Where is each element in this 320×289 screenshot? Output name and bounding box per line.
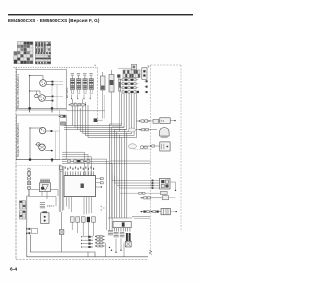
ground bolt symbol xyxy=(61,212,63,230)
circuit breaker CB1 xyxy=(70,73,74,99)
pilot lamp P1 xyxy=(35,91,37,94)
bundle crossover stubs xyxy=(109,124,126,130)
legend table B right column marks xyxy=(48,42,50,45)
misc marks left of generator xyxy=(101,206,102,207)
inline connector pair CN2 xyxy=(61,115,63,117)
wire drop x55.6 xyxy=(55,131,57,160)
spark plug wire xyxy=(136,129,157,131)
diode block inner dot xyxy=(41,187,44,190)
terminal lug R2-L xyxy=(52,96,54,98)
wire R2 neutral terminal xyxy=(45,100,52,102)
ignition connector pair xyxy=(139,120,140,121)
wire diode block down xyxy=(41,192,43,197)
terminal block T mark xyxy=(60,166,63,170)
wire mid branch xyxy=(30,90,40,92)
header rule xyxy=(8,14,193,15)
inline connector pair CN3 xyxy=(60,123,66,125)
main switch S1 xyxy=(101,76,106,90)
terminal lug R4 xyxy=(45,150,51,152)
fuse box small xyxy=(161,191,168,194)
breaker panel inner border xyxy=(66,67,68,100)
starter motor wire xyxy=(143,145,160,147)
bullet connector rows x96 xyxy=(95,235,104,247)
oval label 1 xyxy=(128,128,136,132)
terminal lug R1-L xyxy=(52,81,54,83)
left bundle hatch connector xyxy=(108,230,113,235)
diode rectifier D1 pins xyxy=(41,179,49,183)
generator top feed wire xyxy=(108,217,132,219)
breaker zone bottom line xyxy=(66,110,105,112)
receptacle R2 xyxy=(39,95,46,102)
starter relay box xyxy=(42,211,47,213)
node junction top feed xyxy=(29,75,30,76)
inverter unit pins xyxy=(65,171,93,175)
fuse F1 bottom lead xyxy=(119,91,121,132)
spark plug connector pair xyxy=(139,129,140,130)
wire to receptacle R3 xyxy=(30,127,43,129)
wire ground run inner xyxy=(30,235,95,257)
engine assembly frame right border xyxy=(180,65,182,232)
wire receptacle feed vertical xyxy=(29,76,31,110)
wire bundle vertical long xyxy=(109,124,127,218)
wire R2 line terminal xyxy=(45,95,52,97)
circuit breaker CB3 xyxy=(83,73,87,99)
inline connector row 1 xyxy=(120,79,139,81)
wire battery negative vertical xyxy=(26,196,28,236)
generator stator box xyxy=(113,221,131,227)
receptacle R1 xyxy=(40,80,47,87)
control panel right border xyxy=(97,67,99,124)
generator pins xyxy=(114,228,130,232)
regulator wire right xyxy=(170,182,176,190)
ignition coil wire xyxy=(136,120,160,122)
inverter unit U1 xyxy=(64,176,96,197)
inverter bottom wires right xyxy=(84,197,92,215)
wire engine switch to harness 1 xyxy=(31,190,58,197)
left bundle lead dots xyxy=(109,247,110,248)
svg-text:6-4: 6-4 xyxy=(10,267,17,273)
terminal squares below CN1 xyxy=(146,80,148,82)
connector 2-pin CN1 xyxy=(142,68,147,80)
spark plug cap dome xyxy=(160,128,170,136)
svg-text:B: B xyxy=(148,65,150,69)
legend table B xyxy=(35,41,51,64)
legend table A left annex xyxy=(14,51,17,63)
regulator wires left xyxy=(112,175,160,189)
ground lug G3 xyxy=(29,159,31,161)
panel section 1 box xyxy=(17,70,67,111)
inline connector row 4 xyxy=(120,91,140,93)
oil level switch xyxy=(140,146,143,149)
connector pin grid table xyxy=(123,70,140,78)
circuit breaker CB2 xyxy=(77,73,81,99)
wire harness staircase to inverter xyxy=(62,152,112,230)
circuit breaker CB4 xyxy=(89,73,93,99)
fuse F1 xyxy=(119,79,121,91)
wire receptacle feed vertical section2 xyxy=(29,128,31,160)
ignition coil box xyxy=(160,118,170,124)
connector hatch CN4 xyxy=(40,203,45,208)
inverter bottom wires left xyxy=(67,197,72,212)
charge wire row xyxy=(140,197,162,199)
svg-text:T1: T1 xyxy=(161,119,165,123)
engine assembly frame left border xyxy=(150,65,152,253)
engine switch SW column xyxy=(27,168,31,190)
terminal lug R1-N xyxy=(52,84,54,86)
oval label 2 xyxy=(129,144,137,149)
main switch lead connector xyxy=(94,118,98,122)
diagram frame bottom border xyxy=(16,258,148,260)
inline connector row 2 xyxy=(120,83,139,85)
generator leads down xyxy=(115,239,117,252)
inverter unit pin labels xyxy=(65,167,94,170)
panel section divider xyxy=(16,165,60,167)
fuse F1 top terminal xyxy=(117,74,120,77)
mini pin table B xyxy=(19,211,25,219)
fuse wire long xyxy=(120,192,161,194)
engine assembly frame break mark xyxy=(149,250,152,255)
terminal lug R3 xyxy=(46,130,51,132)
pilot lamp P2 xyxy=(37,143,40,146)
breaker CB5 xyxy=(109,75,114,93)
wire R1 line terminal xyxy=(46,81,52,83)
wire to receptacle R1 xyxy=(30,75,43,77)
wires to engine assembly right xyxy=(110,160,151,162)
inverter right stub 1 xyxy=(96,178,103,180)
battery box xyxy=(161,208,170,214)
wire conduit band x60 xyxy=(59,165,64,213)
legend table B vertical stripes xyxy=(36,42,46,52)
wire harness horizontal band xyxy=(64,99,137,138)
connector row under bus xyxy=(71,103,74,106)
legend table A xyxy=(17,42,33,64)
mini pin table A xyxy=(19,201,25,209)
label row dotted xyxy=(134,149,152,151)
legend table B dark rows xyxy=(35,44,50,46)
battery wire row xyxy=(140,211,161,213)
ladder connector rows xyxy=(81,236,93,248)
wire drop x59.6 xyxy=(59,110,61,160)
terminal lug R2-N xyxy=(52,100,54,102)
regulator box xyxy=(160,178,171,189)
connector above grid table xyxy=(118,67,131,69)
ground terminal cluster xyxy=(26,228,28,230)
connector row under inverter xyxy=(70,217,95,222)
generator connector hatch left xyxy=(114,232,125,237)
diode rectifier D1 body xyxy=(39,183,50,192)
inverter right stub 3 xyxy=(96,186,102,188)
wire R1 neutral terminal xyxy=(46,83,52,85)
ground lug G2 xyxy=(51,107,53,109)
breaker CB5 bottom lead xyxy=(111,92,113,125)
terminal dots row xyxy=(47,205,48,206)
wire engine switch to harness 2 xyxy=(29,190,56,206)
ground lug G4 xyxy=(51,159,53,161)
svg-text:EM4500CXS · EM5500CXS (Версия: EM4500CXS · EM5500CXS (Версия F, G) xyxy=(8,18,100,23)
ground stub risers xyxy=(104,243,106,257)
svg-text:АВТОМАТЫ: АВТОМАТЫ xyxy=(66,87,69,98)
receptacle R4 xyxy=(39,144,46,151)
wire drop x57 xyxy=(56,84,58,110)
panel 1 ground bus xyxy=(17,107,67,109)
panel 2 ground bus xyxy=(16,159,60,161)
receptacle R3 xyxy=(39,127,45,133)
inline connector row y161 xyxy=(67,160,90,163)
panel section 2 box xyxy=(17,115,67,160)
starter motor box xyxy=(160,142,170,151)
ground lug G1 xyxy=(29,107,31,109)
wire terminal drop x52 xyxy=(51,85,53,109)
inline connector row 3 xyxy=(120,87,139,89)
wires below connector row xyxy=(72,222,93,239)
wire ground run outer xyxy=(27,236,148,257)
engine assembly frame top border xyxy=(151,64,182,66)
ground stub x88 xyxy=(87,252,89,257)
noise suppressor box xyxy=(153,119,159,123)
generator dark connector bars xyxy=(126,233,128,242)
wire risers under connector rows xyxy=(122,93,137,137)
inverter right stub 2 xyxy=(96,182,103,184)
diagram frame top border control panel xyxy=(14,66,98,68)
diagram frame left border xyxy=(15,67,17,259)
main switch lead down xyxy=(102,90,104,119)
generator feed from right xyxy=(132,216,150,218)
current transformer box xyxy=(125,241,131,247)
wire to receptacle R2 xyxy=(39,91,41,94)
